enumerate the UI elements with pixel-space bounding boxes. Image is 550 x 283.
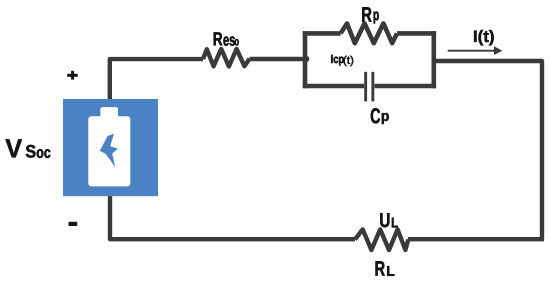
current arrow I(t)	[448, 46, 503, 55]
capacitor Cp right plate	[371, 72, 374, 102]
label + terminal	[67, 71, 78, 80]
resistor RL	[355, 229, 408, 250]
node junction dot at box left	[303, 56, 309, 62]
label Icp(t)	[331, 55, 353, 66]
RC box top edge right segment	[397, 31, 436, 36]
label Rp	[362, 7, 378, 23]
wire from Reso to RC box	[250, 57, 305, 61]
battery icon white body	[88, 116, 130, 186]
RC box bottom edge left segment	[303, 84, 364, 89]
RC box left edge	[303, 31, 308, 88]
wire from box right edge to right rail, down	[434, 61, 542, 239]
wire from battery + terminal up and right to Reso	[110, 59, 203, 100]
resistor Reso	[203, 49, 250, 67]
RC box top edge left segment	[303, 31, 341, 36]
battery icon white top nub	[100, 107, 118, 118]
label Vsoc	[6, 139, 51, 158]
label I(t)	[474, 30, 494, 45]
capacitor Cp left plate	[364, 72, 367, 102]
label Cp	[371, 108, 389, 124]
bottom wire left segment to battery - terminal	[110, 195, 355, 239]
RC box right edge	[431, 31, 436, 88]
label UL	[380, 213, 397, 227]
battery icon lightning bolt	[100, 134, 118, 168]
battery Vsoc body (blue square)	[63, 99, 158, 196]
label - terminal	[69, 222, 78, 226]
resistor Rp in box top edge	[341, 23, 397, 43]
bottom wire right segment	[408, 237, 544, 241]
label RL	[376, 261, 395, 276]
RC box bottom edge right segment	[375, 84, 437, 89]
label Reso	[214, 32, 239, 45]
